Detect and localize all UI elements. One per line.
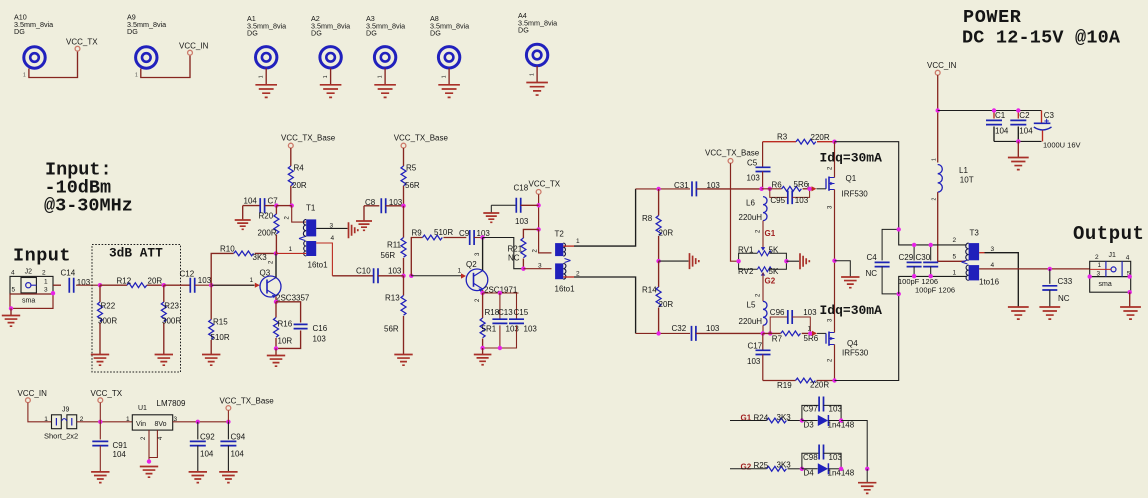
mounting hole A4 3.5mm_8via	[518, 11, 557, 66]
wire C10 line to Q2 base	[411, 275, 461, 277]
svg-text:C12: C12	[180, 270, 195, 279]
svg-text:300R: 300R	[98, 317, 117, 326]
capacitor C2 104	[1010, 108, 1033, 141]
svg-text:J1: J1	[1109, 252, 1117, 259]
capacitor C29 100pF 1206	[899, 245, 922, 276]
svg-text:1: 1	[932, 158, 938, 161]
node R7 left junction	[768, 331, 772, 335]
svg-text:16to1: 16to1	[555, 285, 576, 294]
svg-text:DG: DG	[14, 27, 25, 36]
svg-text:16to1: 16to1	[308, 261, 329, 270]
svg-text:L5: L5	[747, 301, 756, 310]
svg-text:200R: 200R	[258, 229, 277, 238]
svg-text:103: 103	[524, 325, 538, 334]
node R18 bottom junction	[480, 346, 484, 350]
power port VCC_TX (interstage)	[529, 180, 561, 195]
resistor R14 20R	[642, 261, 673, 333]
svg-text:Output: Output	[1073, 223, 1144, 245]
capacitor C8 103	[364, 198, 404, 213]
svg-text:3K3: 3K3	[777, 461, 792, 470]
ground C33	[1039, 307, 1060, 319]
svg-text:R12: R12	[117, 276, 132, 285]
resistor R16 10R	[274, 302, 293, 349]
svg-text:103: 103	[795, 196, 809, 205]
resistor R5 56R	[401, 148, 420, 206]
svg-text:@3-30MHz: @3-30MHz	[44, 196, 133, 217]
svg-text:R20: R20	[259, 212, 274, 221]
regulator U1 LM7809	[126, 399, 186, 464]
svg-text:NC: NC	[866, 269, 878, 278]
transformer T3 1to16	[953, 229, 1000, 287]
transformer T1 16to1	[285, 204, 335, 270]
svg-text:56R: 56R	[405, 181, 420, 190]
svg-text:DG: DG	[518, 26, 529, 35]
svg-text:20R: 20R	[292, 181, 307, 190]
ground mid (sideways)	[690, 253, 699, 269]
capacitor C32 103	[672, 324, 763, 341]
capacitor C13 103	[492, 293, 519, 348]
svg-text:R16: R16	[278, 320, 293, 329]
svg-text:R23: R23	[164, 302, 179, 311]
node R8/R14 junction	[656, 259, 660, 263]
capacitor C5 103	[747, 158, 771, 189]
resistor R4 20R	[288, 148, 307, 206]
base pin arrow Q3	[250, 277, 260, 288]
svg-text:103: 103	[388, 267, 402, 276]
svg-text:3K3: 3K3	[777, 413, 792, 422]
ground under A4	[526, 66, 548, 95]
ground under R18	[474, 298, 492, 365]
inductor L1 10T	[932, 158, 974, 201]
svg-text:3K3: 3K3	[253, 253, 268, 262]
node C30 top junction	[929, 243, 933, 247]
power port VCC_IN (regulator)	[18, 389, 48, 403]
power port VCC_TX (top row)	[66, 38, 98, 52]
svg-text:104: 104	[231, 450, 245, 459]
svg-text:NC: NC	[508, 253, 520, 262]
wire T2 pin2 to C32 line	[563, 277, 635, 333]
svg-text:C10: C10	[356, 267, 371, 276]
svg-text:RV1: RV1	[738, 245, 754, 254]
svg-text:U1: U1	[138, 405, 147, 412]
svg-text:1: 1	[808, 325, 812, 332]
svg-text:3: 3	[991, 246, 995, 253]
transistor Q1 IRF530	[817, 142, 869, 261]
svg-text:1: 1	[323, 75, 329, 78]
svg-text:103: 103	[829, 453, 843, 462]
svg-text:C3: C3	[1044, 111, 1055, 120]
resistor R11 56R	[381, 206, 407, 276]
svg-text:DG: DG	[127, 27, 138, 36]
wire T3 pin1 line	[899, 276, 967, 294]
base pin arrow Q2	[458, 268, 467, 279]
svg-text:220R: 220R	[811, 133, 830, 142]
capacitor C9 103	[459, 229, 490, 245]
svg-text:C1: C1	[995, 111, 1006, 120]
node T2 pin3 junction	[521, 267, 525, 271]
svg-text:3: 3	[538, 263, 542, 270]
capacitor C7 104	[243, 196, 279, 213]
svg-text:104: 104	[1019, 127, 1033, 136]
wire R4 junction to T1 pin2	[292, 206, 306, 223]
jumper J9 Short_2x2	[44, 407, 84, 441]
wire C12 to Q3 base	[195, 284, 255, 286]
resistor R10 3K3 (feedback)	[211, 244, 276, 285]
ground T3 pin3	[1008, 307, 1029, 319]
svg-text:R8: R8	[642, 214, 653, 223]
svg-text:R4: R4	[294, 164, 305, 173]
svg-text:5K: 5K	[769, 267, 779, 276]
ground under A2	[320, 68, 342, 97]
svg-text:sma: sma	[22, 298, 35, 305]
ground T1 pin3 (sideways)	[349, 222, 358, 238]
svg-text:R6: R6	[772, 180, 783, 189]
resistor R12 20R	[100, 276, 164, 287]
ground under R23	[155, 355, 173, 366]
wire R3 to drain bus	[835, 142, 967, 245]
node Q2 collector junction	[480, 235, 484, 239]
svg-text:DG: DG	[430, 29, 441, 38]
svg-text:T3: T3	[970, 229, 980, 238]
svg-text:T2: T2	[555, 230, 565, 239]
capacitor C14 103	[61, 269, 91, 293]
node source junction	[832, 259, 836, 263]
svg-text:220uH: 220uH	[739, 213, 763, 222]
wire T2 pin1 to C31 line	[563, 189, 635, 246]
svg-text:Short_2x2: Short_2x2	[44, 431, 78, 440]
node RV left junction	[736, 259, 740, 263]
svg-text:R5: R5	[406, 164, 417, 173]
capacitor C94 104	[220, 422, 245, 472]
svg-text:1: 1	[44, 416, 48, 423]
resistor R24 3K3	[730, 413, 802, 423]
svg-text:VCC_IN: VCC_IN	[179, 42, 209, 51]
svg-text:VCC_IN: VCC_IN	[927, 61, 957, 70]
svg-text:1000U 16V: 1000U 16V	[1043, 141, 1081, 150]
ground C8	[356, 206, 372, 231]
wire D3 to common	[841, 421, 867, 469]
node ATT input junction	[98, 283, 102, 287]
wire C32 line	[636, 332, 690, 334]
svg-text:2: 2	[42, 270, 46, 277]
wire VCC_TX to T2 pin2	[539, 229, 552, 253]
net label G1 (clamp row)	[741, 413, 752, 422]
node C30 bottom junction	[929, 274, 933, 278]
svg-text:Q2: Q2	[466, 260, 477, 269]
resistor R22 300R	[98, 285, 118, 354]
ground C18	[483, 205, 499, 222]
capacitor C97 103 (parallel D3)	[802, 397, 842, 421]
capacitor C16 103	[276, 302, 328, 349]
text Output	[1073, 223, 1144, 245]
transistor Q4 IRF530	[817, 261, 869, 381]
ground under R22	[91, 355, 109, 366]
capacitor C3 1000U 16V (electrolytic)	[1034, 111, 1081, 150]
node C17/L5 junction	[761, 331, 765, 335]
node C92 junction	[196, 420, 200, 424]
wire collector junction to T2 pin3 (loop)	[483, 238, 524, 269]
svg-text:R10: R10	[220, 244, 235, 253]
ground under A3	[374, 68, 396, 97]
node D4 cathode junction	[839, 467, 843, 471]
node C4 bottom junction	[897, 292, 901, 296]
mounting hole A9 3.5mm_8via	[127, 13, 166, 69]
node C10/R11 junction	[401, 274, 405, 278]
svg-text:DG: DG	[366, 29, 377, 38]
svg-text:C94: C94	[231, 433, 246, 442]
capacitor C96 103 (parallel R7)	[770, 308, 817, 334]
svg-text:VCC_TX_Base: VCC_TX_Base	[705, 149, 760, 158]
ground clamp common	[858, 469, 876, 494]
svg-text:104: 104	[244, 196, 258, 205]
mounting hole A1 3.5mm_8via	[247, 14, 286, 68]
node Q3 base junction	[209, 283, 213, 287]
transistor Q2 2SC1971	[466, 238, 518, 295]
svg-text:J9: J9	[62, 407, 70, 414]
wire gate row upper	[762, 188, 782, 190]
svg-text:R24: R24	[754, 413, 769, 422]
svg-text:1: 1	[135, 73, 138, 79]
potentiometer RV2 5K	[738, 261, 786, 276]
node C29 bottom junction	[912, 274, 916, 278]
capacitor C1 104	[986, 108, 1009, 141]
svg-text:Idq=30mA: Idq=30mA	[820, 303, 883, 318]
svg-text:103: 103	[506, 325, 520, 334]
svg-text:VCC_TX: VCC_TX	[529, 180, 561, 189]
svg-text:C29: C29	[899, 253, 914, 262]
node Q4 drain junction	[832, 378, 836, 382]
svg-text:2: 2	[953, 237, 957, 244]
svg-text:5: 5	[953, 254, 957, 261]
svg-text:20R: 20R	[659, 300, 674, 309]
wire L1 to T3 center tap	[938, 192, 966, 261]
svg-text:104: 104	[995, 127, 1009, 136]
node C4 top junction	[897, 227, 901, 231]
svg-text:103: 103	[313, 335, 327, 344]
ground under A8	[438, 68, 460, 97]
wire to bypass caps	[938, 110, 1042, 112]
node Q1 drain junction	[832, 140, 836, 144]
svg-text:4: 4	[1126, 254, 1130, 261]
capacitor C33 NC	[1042, 269, 1072, 307]
net label G2 (bias)	[756, 277, 776, 298]
capacitor C12 103	[164, 270, 212, 293]
svg-text:R22: R22	[101, 302, 116, 311]
node C33 junction	[1048, 267, 1052, 271]
svg-text:510R: 510R	[434, 228, 453, 237]
svg-text:C8: C8	[365, 198, 376, 207]
svg-text:IRF530: IRF530	[842, 190, 869, 199]
wire bypass bottom bus	[994, 140, 1042, 142]
svg-text:1: 1	[250, 277, 254, 284]
wire T1 pin1	[276, 252, 306, 254]
node R16 bottom junction	[274, 346, 278, 350]
svg-text:3: 3	[1097, 270, 1101, 277]
svg-text:4: 4	[11, 270, 15, 277]
mounting hole A8 3.5mm_8via	[430, 14, 469, 68]
node C13 top junction	[498, 291, 502, 295]
wire R8/R14 junction to ground	[659, 260, 689, 262]
wire VCC_IN from A9	[135, 55, 190, 78]
svg-text:R19: R19	[777, 381, 792, 390]
svg-text:103: 103	[707, 181, 721, 190]
node VCC_TX junction (reg)	[98, 420, 102, 424]
resistor R8 20R	[642, 189, 673, 261]
node R6 left junction	[768, 187, 772, 191]
svg-text:R25: R25	[754, 461, 769, 470]
ground under J2	[2, 308, 20, 326]
wire T3 pin3 to ground	[979, 253, 1018, 307]
node D4 anode junction	[800, 467, 804, 471]
wire R21 to T2 pin3	[523, 268, 551, 270]
svg-text:L1: L1	[959, 166, 968, 175]
potentiometer RV1 5K	[738, 245, 786, 261]
svg-text:VCC_TX_Base: VCC_TX_Base	[281, 134, 336, 143]
svg-text:1: 1	[458, 268, 462, 275]
svg-text:1: 1	[126, 416, 130, 423]
svg-text:1: 1	[1098, 262, 1102, 269]
wire VCC_TX from A10	[23, 51, 78, 78]
wire VCC_TX port down	[99, 403, 101, 422]
ground power bypass	[1008, 141, 1029, 169]
svg-text:103: 103	[515, 217, 529, 226]
ground under R15	[202, 355, 220, 366]
ground under R13	[394, 355, 412, 366]
svg-text:C4: C4	[867, 253, 878, 262]
svg-text:C33: C33	[1058, 277, 1073, 286]
wire emitter top rail	[483, 292, 519, 294]
transformer T2 16to1	[533, 230, 581, 294]
mounting hole A10 3.5mm_8via	[14, 13, 53, 69]
node R4 bottom junction	[276, 203, 294, 207]
text POWER	[963, 7, 1022, 28]
node C13 bottom junction	[498, 346, 502, 350]
svg-text:10R: 10R	[278, 337, 293, 346]
ground C94	[219, 472, 237, 483]
node Q4 gate junction	[808, 331, 812, 335]
svg-text:R13: R13	[385, 294, 400, 303]
svg-text:1: 1	[259, 75, 265, 78]
wire VCC_IN rail	[937, 75, 939, 162]
svg-text:2: 2	[1095, 254, 1099, 261]
resistor R25 3K3	[730, 461, 802, 472]
ground RV (sideways)	[800, 253, 809, 269]
connector J1 sma	[1088, 252, 1132, 294]
node Q1 gate junction	[807, 187, 811, 191]
svg-text:DG: DG	[247, 29, 258, 38]
wire VCC_TX down	[538, 194, 540, 229]
svg-text:VCC_TX: VCC_TX	[66, 38, 98, 47]
svg-text:5K: 5K	[769, 245, 779, 254]
ground under A1	[255, 68, 277, 97]
capacitor C31 103	[674, 181, 762, 196]
svg-text:R14: R14	[642, 286, 657, 295]
gate pin arrow Q4	[812, 331, 817, 336]
node D3 cathode junction	[839, 418, 843, 422]
svg-text:103: 103	[747, 173, 761, 182]
svg-text:1to16: 1to16	[979, 278, 1000, 287]
svg-text:C13: C13	[498, 308, 513, 317]
svg-text:1: 1	[442, 75, 448, 78]
wire R19 to lower drain bus	[835, 294, 899, 381]
wire U1 out to VCC_TX_Base	[173, 421, 229, 423]
svg-text:VCC_TX_Base: VCC_TX_Base	[220, 396, 275, 405]
ground C7	[235, 206, 251, 230]
capacitor C91 104	[92, 422, 127, 472]
resistor R3 220R	[763, 132, 835, 144]
resistor R21 NC	[508, 229, 539, 268]
svg-text:R11: R11	[387, 241, 402, 250]
svg-text:VCC_TX_Base: VCC_TX_Base	[394, 134, 449, 143]
svg-text:sma: sma	[1099, 281, 1112, 288]
svg-text:3dB ATT: 3dB ATT	[109, 246, 163, 261]
resistor R23 300R	[161, 285, 181, 354]
node R21 top junction	[536, 227, 540, 231]
svg-text:103: 103	[747, 357, 761, 366]
inductor L6 220uH	[739, 197, 768, 222]
svg-text:103: 103	[706, 324, 720, 333]
svg-text:1: 1	[953, 270, 957, 277]
node R8 top junction	[656, 187, 660, 191]
svg-text:1: 1	[289, 246, 293, 253]
label 100pF 1206 (C29)	[898, 277, 938, 286]
text @3-30MHz	[44, 196, 133, 217]
svg-text:C96: C96	[770, 308, 785, 317]
ground U1	[140, 467, 158, 478]
ground under R16	[267, 348, 285, 366]
svg-text:4: 4	[991, 262, 995, 269]
node VCC_IN junction	[936, 108, 940, 112]
svg-text:VCC_IN: VCC_IN	[18, 389, 48, 398]
power port VCC_IN (top row)	[179, 42, 209, 56]
power port VCC_IN (power section)	[927, 61, 957, 75]
node VCC_TX_Base junction (reg)	[226, 420, 230, 424]
node C7/R20 junction	[274, 203, 278, 207]
diode D3 1n4148	[802, 415, 855, 429]
svg-text:C2: C2	[1019, 111, 1030, 120]
label 100pF 1206 (C30)	[915, 286, 955, 295]
resistor R6 5R6	[772, 180, 811, 191]
svg-text:Q3: Q3	[260, 269, 271, 278]
resistor R7 5R6	[763, 331, 819, 344]
node bypass ground junction	[1016, 139, 1020, 143]
transistor Q3 2SC3357	[212, 253, 310, 302]
svg-text:1: 1	[576, 238, 580, 245]
svg-text:103: 103	[829, 404, 843, 413]
resistor R20 200R	[258, 206, 279, 254]
svg-text:20R: 20R	[659, 229, 674, 238]
power port VCC_TX_Base (regulator out)	[220, 396, 275, 410]
svg-text:4: 4	[331, 235, 335, 242]
capacitor C18 103	[491, 184, 538, 227]
svg-text:104: 104	[200, 450, 214, 459]
ground J1	[1120, 292, 1141, 319]
svg-text:300R: 300R	[162, 317, 181, 326]
capacitor C95 103 (parallel R6)	[770, 189, 810, 205]
wire VCC_TX_Base port down	[227, 410, 229, 421]
ground C91	[91, 472, 109, 483]
wire VCC_TX_Base rail	[731, 163, 739, 261]
attenuator box 3dB ATT	[92, 245, 181, 373]
node ATT output junction	[162, 283, 166, 287]
svg-text:RV2: RV2	[738, 267, 754, 276]
svg-text:Vin: Vin	[136, 421, 146, 428]
resistor R15 510R	[209, 285, 230, 354]
svg-text:Idq=30mA: Idq=30mA	[820, 151, 883, 166]
mounting hole A3 3.5mm_8via	[366, 14, 405, 68]
svg-text:220uH: 220uH	[739, 317, 763, 326]
svg-text:T1: T1	[306, 204, 316, 213]
